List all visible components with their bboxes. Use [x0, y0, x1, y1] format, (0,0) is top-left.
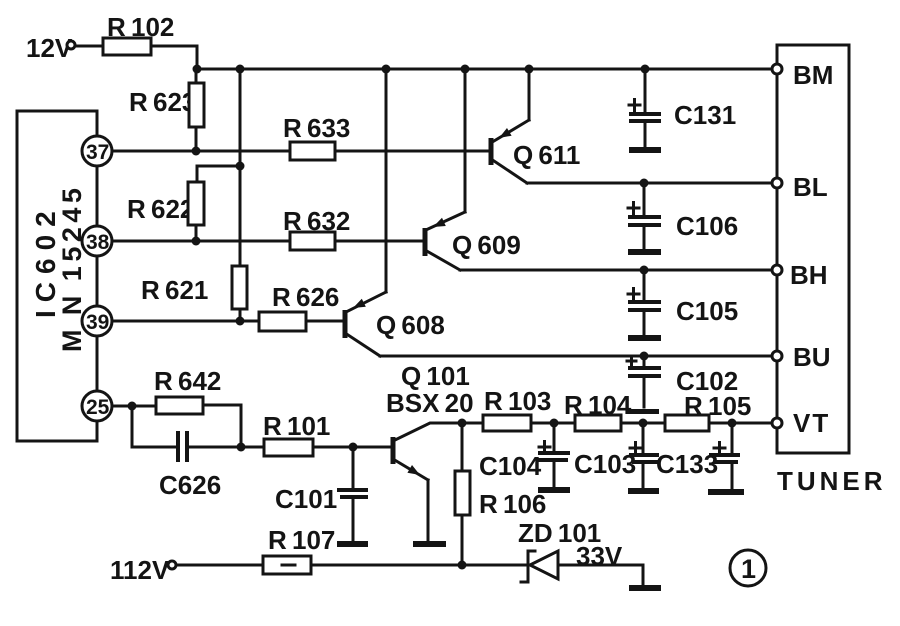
wire BL row: [527, 182, 773, 185]
ground C105: [628, 335, 661, 341]
capacitor C133: [656, 423, 740, 490]
wire R102 to top bus: [151, 46, 197, 69]
wire R107 to zener: [311, 564, 526, 567]
resistor R623: [129, 69, 204, 151]
ground Q101 emitter: [413, 541, 446, 547]
node junction C133 top: [728, 419, 737, 428]
diode ZD101 33V zener: [518, 518, 623, 582]
svg-text:BSX 20: BSX 20: [386, 388, 474, 418]
wire pin25 row: [112, 405, 156, 408]
wire pin39 row: [112, 320, 343, 323]
svg-text:C131: C131: [674, 100, 736, 130]
ground end of 112V line: [629, 585, 661, 591]
resistor R642: [154, 366, 241, 447]
ground C103: [628, 488, 659, 494]
pin 37: [82, 136, 112, 166]
resistor R105: [665, 391, 751, 431]
node junction R106 bottom: [458, 561, 467, 570]
svg-text:39: 39: [86, 311, 109, 334]
svg-text:R 626: R 626: [272, 282, 339, 312]
capacitor C101: [275, 447, 368, 541]
node junction C105 top: [640, 266, 649, 275]
node bus junction A: [193, 65, 202, 74]
svg-text:R 101: R 101: [263, 411, 330, 441]
svg-text:37: 37: [86, 141, 109, 164]
svg-text:R 621: R 621: [141, 275, 208, 305]
wire pin37 row: [112, 150, 489, 153]
resistor R101: [241, 411, 353, 456]
node bus junction F: [641, 65, 650, 74]
svg-text:C133: C133: [656, 449, 718, 479]
svg-text:C101: C101: [275, 484, 337, 514]
IC U1 IC602 MN15245: [17, 111, 97, 441]
resistor R626: [259, 282, 339, 331]
node junction C103 top: [639, 419, 648, 428]
ground C133: [708, 489, 744, 495]
wire 112V to R107: [176, 564, 263, 567]
svg-text:BM: BM: [793, 60, 833, 90]
svg-text:1: 1: [741, 554, 756, 584]
wire VT row: [462, 422, 772, 425]
svg-text:25: 25: [86, 396, 110, 419]
capacitor C105: [628, 270, 738, 336]
capacitor C106: [628, 183, 738, 250]
resistor R621: [141, 266, 247, 321]
node junction R622 bottom: [192, 237, 201, 246]
svg-text:R 633: R 633: [283, 113, 350, 143]
capacitor C103: [574, 423, 659, 489]
node circled 1 diagram marker: [730, 550, 766, 586]
wire top supply bus: [196, 68, 773, 71]
svg-text:C104: C104: [479, 451, 542, 481]
ground C106: [628, 249, 661, 255]
svg-text:Q 611: Q 611: [513, 140, 580, 170]
node terminal BH: [772, 265, 782, 275]
svg-text:C106: C106: [676, 211, 738, 241]
resistor R106: [455, 423, 546, 565]
svg-text:C103: C103: [574, 449, 636, 479]
transistor Q609: [425, 69, 521, 270]
svg-text:R 106: R 106: [479, 489, 546, 519]
node junction R621 bottom: [236, 317, 245, 326]
svg-text:C105: C105: [676, 296, 738, 326]
node bus junction D: [461, 65, 470, 74]
wire bus drop x=240: [239, 69, 242, 266]
capacitor C626: [132, 431, 241, 500]
ground C102: [628, 409, 659, 414]
node junction collector/R103/R106: [458, 419, 467, 428]
svg-text:Q 608: Q 608: [376, 310, 445, 340]
transistor Q611: [491, 69, 580, 183]
node junction C106 top: [640, 179, 649, 188]
ground C104: [538, 487, 570, 493]
node bus junction B: [236, 65, 245, 74]
resistor R104: [564, 390, 632, 431]
svg-text:C626: C626: [159, 470, 221, 500]
resistor R103: [483, 386, 551, 431]
svg-text:BH: BH: [790, 260, 828, 290]
transistor Q608: [345, 69, 445, 356]
node junction C102 top: [640, 352, 649, 361]
svg-text:112V: 112V: [110, 555, 170, 585]
resistor R102: [103, 12, 174, 55]
node bus junction E: [525, 65, 534, 74]
wire 12V to R102: [76, 45, 103, 48]
TUNER block: [777, 45, 887, 496]
node terminal VT: [772, 418, 782, 428]
node junction Q101 base: [349, 443, 358, 452]
svg-text:Q 101: Q 101: [401, 361, 470, 391]
capacitor C131: [629, 69, 736, 148]
node 12V terminal: [26, 33, 75, 63]
capacitor C104: [479, 423, 570, 488]
svg-text:TUNER: TUNER: [777, 466, 887, 496]
wire pin25 down branch: [131, 406, 134, 447]
node junction C104 top: [550, 419, 559, 428]
capacitor C102: [627, 356, 738, 407]
wire BH row: [460, 269, 773, 272]
svg-text:R 107: R 107: [268, 525, 335, 555]
wire BU row: [380, 355, 773, 358]
svg-text:Q 609: Q 609: [452, 230, 521, 260]
svg-text:BL: BL: [793, 172, 828, 202]
wire pin38 row: [112, 240, 423, 243]
node bus junction C: [382, 65, 391, 74]
node junction R622 top: [236, 162, 245, 171]
svg-text:R 103: R 103: [484, 386, 551, 416]
ground C101: [337, 541, 368, 547]
resistor R632: [283, 206, 350, 250]
node junction R623 bottom: [192, 147, 201, 156]
svg-text:BU: BU: [793, 342, 831, 372]
svg-text:R 622: R 622: [127, 194, 194, 224]
transistor Q101: [353, 361, 474, 541]
node 112V terminal: [110, 555, 176, 585]
resistor R622: [127, 166, 240, 241]
pin 39: [82, 306, 112, 336]
svg-text:12V: 12V: [26, 33, 73, 63]
pin 25: [82, 391, 112, 421]
svg-text:VT: VT: [793, 408, 830, 438]
ground C131: [629, 147, 661, 153]
node junction pin25: [128, 402, 137, 411]
resistor R107: [263, 525, 335, 574]
node terminal BL: [772, 178, 782, 188]
node terminal BM: [772, 64, 782, 74]
svg-text:R 642: R 642: [154, 366, 221, 396]
node junction R642/C626 right: [237, 443, 246, 452]
svg-text:38: 38: [86, 231, 110, 254]
svg-text:R 623: R 623: [129, 87, 196, 117]
node terminal BU: [772, 351, 782, 361]
pin 38: [82, 226, 112, 256]
resistor R633: [283, 113, 350, 160]
wire zener to ground: [558, 565, 643, 586]
